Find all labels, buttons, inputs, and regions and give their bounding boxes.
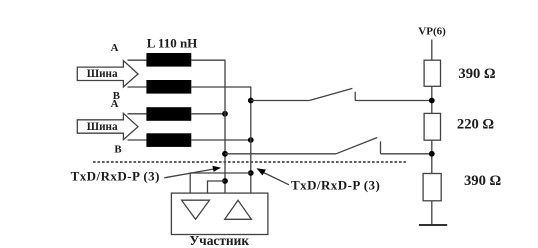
wire VP(6) stem: [431, 40, 433, 225]
wire L3 to A-bus: [191, 113, 225, 115]
switch S1 blade: [309, 88, 352, 100]
wire switch1 left: [251, 100, 309, 102]
svg-text:Участник: Участник: [189, 233, 249, 248]
junction dot B-bus / switch 1: [248, 98, 254, 104]
ground bar: [419, 224, 447, 226]
svg-text:390 Ω: 390 Ω: [458, 66, 496, 82]
svg-text:A: A: [111, 42, 119, 54]
svg-text:L 110 nH: L 110 nH: [147, 36, 198, 51]
wire L4 to B-bus: [191, 139, 251, 141]
wire switch2 left: [225, 153, 336, 155]
junction dot A-bus / stub: [222, 178, 228, 184]
svg-text:B: B: [114, 143, 121, 155]
svg-text:Шина: Шина: [87, 68, 118, 80]
svg-text:TxD/RxD-P (3): TxD/RxD-P (3): [291, 178, 380, 193]
wire arrow1 to L1: [128, 59, 147, 61]
junction dot A-bus / switch 2: [222, 151, 228, 157]
svg-text:390 Ω: 390 Ω: [464, 173, 502, 189]
svg-text:220 Ω: 220 Ω: [457, 116, 495, 132]
wire L1 to A-bus: [191, 59, 225, 61]
wire A-bus vertical: [224, 60, 226, 193]
junction dot A-bus / L3: [222, 111, 228, 117]
junction dot B-bus / L4: [248, 137, 254, 143]
inductor L4: [146, 133, 191, 147]
wire switch1 right: [355, 100, 432, 102]
wire B-bus vertical: [250, 87, 252, 193]
junction dot chain / switch1: [429, 98, 435, 104]
wire arrow2 to L3: [128, 113, 147, 115]
switch S1 contact tick: [354, 92, 356, 101]
resistor R2 220: [424, 113, 440, 140]
junction dot chain / switch2: [429, 151, 435, 157]
switch S2 blade: [336, 138, 377, 154]
junction dot B-bus / stub: [248, 170, 254, 176]
inductor L3: [146, 107, 191, 121]
svg-text:A: A: [111, 98, 119, 110]
bus arrow 1 (block arrow Шина): [77, 61, 138, 87]
wire arrow2 to L4: [128, 139, 147, 141]
pointer line right: [264, 173, 290, 185]
pointer arrowhead left: [212, 166, 221, 172]
resistor R3 390: [423, 174, 441, 201]
pointer line left: [164, 169, 214, 178]
switch S2 contact tick: [380, 141, 382, 154]
svg-text:TxD/RxD-P (3): TxD/RxD-P (3): [71, 168, 160, 183]
resistor R1 390: [424, 60, 440, 86]
pointer arrowhead right: [257, 168, 267, 175]
wire L2 to B-bus: [191, 86, 251, 88]
inductor L2: [146, 80, 191, 94]
transceiver box: [171, 193, 268, 234]
wire switch2 right: [381, 153, 432, 155]
inductor L1: [146, 53, 191, 67]
driver triangle (down): [182, 200, 210, 219]
receiver triangle (up): [225, 200, 252, 219]
bus arrow 2 (block arrow Шина): [77, 113, 138, 139]
svg-text:Шина: Шина: [87, 121, 118, 133]
dashed separator line: [93, 161, 406, 163]
wire stub from B-bus to box pin 1: [190, 173, 251, 193]
wire arrow1 to L2: [128, 86, 147, 88]
svg-text:VP(6): VP(6): [418, 25, 446, 37]
wire stub from A-bus to box pin 2: [208, 181, 226, 193]
